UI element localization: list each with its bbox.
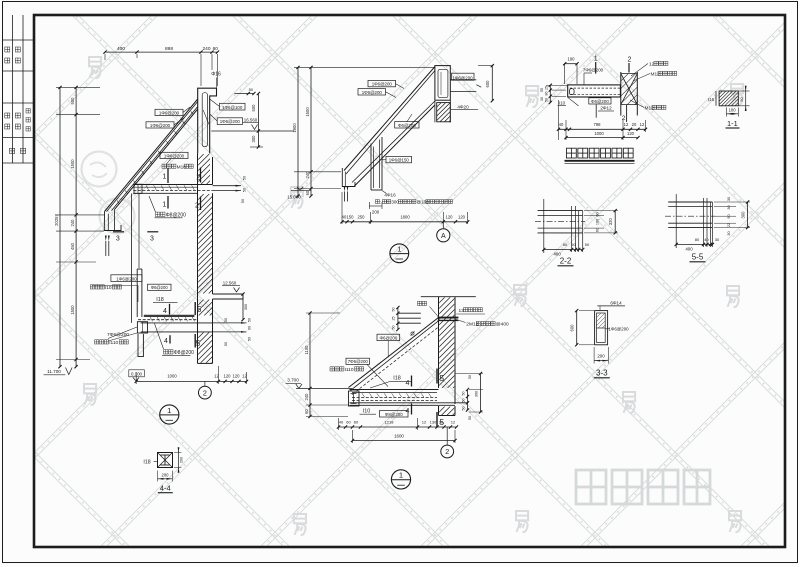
svg-text:30: 30 xyxy=(540,97,544,101)
svg-text:55: 55 xyxy=(540,88,544,92)
support label zhizuo phi8@200 xyxy=(149,196,156,212)
svg-text:300: 300 xyxy=(251,135,256,143)
svg-text:I10: I10 xyxy=(363,409,371,415)
section cut 2 upper xyxy=(200,168,202,183)
svg-text:2: 2 xyxy=(445,447,449,456)
svg-text:I18: I18 xyxy=(156,297,164,303)
label 1phi6@200 boxed xyxy=(217,118,242,125)
svg-text:50: 50 xyxy=(544,98,548,102)
detail B wall hatched xyxy=(421,296,476,298)
svg-text:1Φ6@200: 1Φ6@200 xyxy=(220,119,241,124)
svg-text:300: 300 xyxy=(244,304,248,310)
detail B right small dims xyxy=(467,390,469,411)
svg-text:I18: I18 xyxy=(143,460,150,466)
label tiejian xyxy=(418,301,427,305)
svg-text:0.100: 0.100 xyxy=(131,371,143,376)
svg-text:50: 50 xyxy=(468,416,472,420)
AC section cut 2 bottom xyxy=(626,105,628,122)
svg-text:50: 50 xyxy=(224,342,228,346)
svg-text:20: 20 xyxy=(632,122,637,127)
section 2-2 right dims xyxy=(614,211,616,233)
detail L parapet coping xyxy=(198,88,217,153)
section cut 5 lower xyxy=(194,334,196,348)
svg-text:1Φ6@100: 1Φ6@100 xyxy=(222,105,243,110)
svg-text:50: 50 xyxy=(740,97,744,101)
slab through-wall arrows xyxy=(213,185,242,187)
svg-text:1Φ6@200: 1Φ6@200 xyxy=(116,276,137,281)
svg-text:1000: 1000 xyxy=(594,131,604,136)
svg-text:4: 4 xyxy=(406,380,410,387)
section cut 1 lower xyxy=(167,196,169,209)
svg-text:Φ16: Φ16 xyxy=(211,72,221,78)
section 2-2 bottom dims xyxy=(544,249,583,251)
svg-text::: : xyxy=(380,200,381,205)
detail B weld labels xyxy=(346,358,370,364)
svg-text:60: 60 xyxy=(596,212,600,216)
4-4 right dim 200 xyxy=(178,451,180,469)
svg-text:1900: 1900 xyxy=(292,123,297,133)
svg-text:50: 50 xyxy=(462,392,466,396)
AC bottom dims xyxy=(559,128,646,130)
svg-text:M12: M12 xyxy=(651,72,661,78)
svg-text:25: 25 xyxy=(392,317,396,321)
svg-text:50: 50 xyxy=(243,176,247,180)
svg-text:120: 120 xyxy=(458,214,466,219)
3-3 left dim 600 xyxy=(576,311,578,345)
section 3-3 body xyxy=(595,311,608,345)
detail B left dims 1100/240/60 xyxy=(309,313,311,417)
title strip text xyxy=(5,47,10,52)
svg-text:240: 240 xyxy=(202,46,210,52)
hanger stub xyxy=(138,334,143,357)
title strip signature column xyxy=(12,15,14,163)
slope rebar labels boxed xyxy=(155,109,183,115)
svg-text:100: 100 xyxy=(729,108,737,113)
section cut 4 lower xyxy=(169,335,171,343)
detail L roof slope slab xyxy=(105,99,198,212)
callout bubble 1 detail L xyxy=(160,405,179,424)
svg-text:Φ8@200: Φ8@200 xyxy=(385,412,403,417)
svg-text:40: 40 xyxy=(339,420,344,425)
support label lower xyxy=(155,324,164,350)
svg-text:80: 80 xyxy=(563,242,568,247)
detail B bottom dims xyxy=(339,426,457,428)
svg-text:50: 50 xyxy=(248,337,252,341)
svg-text:1600: 1600 xyxy=(394,433,404,438)
roof level line xyxy=(211,130,294,132)
svg-text:5: 5 xyxy=(196,339,201,348)
svg-text:400: 400 xyxy=(685,247,693,252)
svg-text:160: 160 xyxy=(596,219,600,225)
svg-text:@100: @100 xyxy=(417,200,430,205)
detail L top dimension line 400/898/240/60 xyxy=(105,51,218,53)
eave gutter xyxy=(104,212,121,231)
parapet inner liner slot xyxy=(202,93,207,147)
svg-text:1: 1 xyxy=(594,56,598,63)
svg-text:200: 200 xyxy=(162,473,170,478)
svg-text:90: 90 xyxy=(727,214,731,218)
svg-text:2: 2 xyxy=(203,388,207,397)
svg-text:50: 50 xyxy=(462,399,466,403)
svg-text:12: 12 xyxy=(624,122,629,127)
detail M eave gutter xyxy=(342,168,355,187)
svg-text:1-1: 1-1 xyxy=(727,119,738,128)
svg-text:50: 50 xyxy=(585,242,590,247)
svg-text:390: 390 xyxy=(475,391,479,397)
section cut 1 upper xyxy=(167,169,169,184)
section cut 2 lower xyxy=(200,197,202,211)
svg-text:300: 300 xyxy=(391,200,399,205)
detail L total dimension xyxy=(59,87,61,366)
svg-text:12.560: 12.560 xyxy=(223,280,237,285)
svg-text:4Φ16: 4Φ16 xyxy=(384,193,396,198)
gutter arrows M xyxy=(344,192,346,202)
watermark big site name xyxy=(576,470,710,504)
beam end plate xyxy=(137,322,147,333)
svg-text:50: 50 xyxy=(249,87,254,92)
svg-text:25: 25 xyxy=(544,86,548,90)
svg-text:3.700: 3.700 xyxy=(287,378,299,383)
detail M roof slope xyxy=(344,67,435,171)
elevation 0.100 boxed xyxy=(129,370,145,377)
svg-text:1Φ6@200: 1Φ6@200 xyxy=(164,153,185,158)
section cut 4 marks B xyxy=(411,376,413,387)
svg-text:30: 30 xyxy=(727,231,731,235)
svg-text:1: 1 xyxy=(397,245,401,254)
gutter hanger arrows xyxy=(105,241,107,256)
rebar symbol on slope xyxy=(411,332,414,335)
svg-text:I18: I18 xyxy=(393,376,401,382)
detail M fascia member xyxy=(370,144,372,191)
section 4-4 body xyxy=(158,453,173,468)
svg-text:12: 12 xyxy=(451,420,456,425)
svg-text:I110: I110 xyxy=(109,340,118,346)
detail L lower beam slab xyxy=(144,315,195,317)
detail B label 1phi6@200 xyxy=(377,334,400,340)
svg-text:1800: 1800 xyxy=(400,214,410,219)
svg-text:50: 50 xyxy=(224,318,228,322)
svg-text:30: 30 xyxy=(439,420,444,425)
svg-text:30: 30 xyxy=(715,237,720,242)
detail L floor slab xyxy=(133,184,212,186)
svg-text:120: 120 xyxy=(627,131,635,136)
svg-text:1Φ6@200: 1Φ6@200 xyxy=(150,123,171,128)
svg-text:1Φ6@200: 1Φ6@200 xyxy=(608,327,629,332)
svg-text:60: 60 xyxy=(304,409,309,414)
section 5-5 right dims xyxy=(747,202,749,228)
svg-text:120: 120 xyxy=(233,374,241,379)
svg-text:798: 798 xyxy=(594,122,602,127)
wall ledge xyxy=(213,293,244,295)
svg-text:4: 4 xyxy=(406,408,410,415)
label 1phi6@100 boxed xyxy=(220,103,246,110)
svg-text:1500: 1500 xyxy=(70,159,75,169)
svg-text:190: 190 xyxy=(568,57,576,62)
svg-text:15.000: 15.000 xyxy=(287,195,301,200)
svg-text:20257: 20257 xyxy=(54,214,59,226)
svg-text:90: 90 xyxy=(248,326,252,330)
svg-text:50: 50 xyxy=(462,407,466,411)
svg-text:7Φ6@200: 7Φ6@200 xyxy=(348,359,369,364)
support label B xyxy=(380,411,409,418)
svg-text:1: 1 xyxy=(162,202,166,209)
detail L bottom dims xyxy=(136,380,246,382)
coping top 50 dim xyxy=(234,93,254,95)
svg-text:250: 250 xyxy=(358,214,366,219)
svg-text:M12: M12 xyxy=(645,106,655,112)
svg-text:2: 2 xyxy=(622,115,626,122)
detail B right leader labels xyxy=(456,313,485,315)
beam through-wall right side xyxy=(213,322,247,324)
svg-text:60: 60 xyxy=(346,420,351,425)
AC section cut 1 top xyxy=(595,62,597,74)
svg-text:1Φ6@200: 1Φ6@200 xyxy=(159,110,180,115)
fascia 200 dim xyxy=(368,202,370,209)
svg-text:60: 60 xyxy=(354,420,359,425)
svg-text:1500: 1500 xyxy=(305,107,310,117)
callout bubble 1 detail M xyxy=(390,244,409,263)
slab left end I-beam xyxy=(349,391,360,406)
AC wall hatched X xyxy=(620,72,622,116)
svg-text:12: 12 xyxy=(422,420,427,425)
detail M slope labels xyxy=(368,80,396,86)
svg-text:50: 50 xyxy=(571,242,576,247)
embed plate marks xyxy=(398,312,421,314)
svg-text:@400: @400 xyxy=(496,322,509,328)
AC right leader labels xyxy=(631,64,648,77)
svg-text:A: A xyxy=(441,233,446,240)
detail L lower level labels xyxy=(111,275,142,282)
svg-text:3: 3 xyxy=(150,236,154,243)
callout bubble 1 detail B xyxy=(391,470,410,489)
svg-text:1: 1 xyxy=(162,174,166,181)
svg-text:450: 450 xyxy=(70,242,75,250)
callout circle 2 detail L xyxy=(204,381,206,386)
svg-text:80: 80 xyxy=(544,92,548,96)
callout circle 2 detail B xyxy=(446,427,448,445)
svg-text:4Φ20: 4Φ20 xyxy=(457,104,469,109)
svg-text:2-2: 2-2 xyxy=(560,257,572,266)
svg-text:30: 30 xyxy=(727,197,731,201)
svg-text:Φ6@200: Φ6@200 xyxy=(398,123,416,128)
svg-text:898: 898 xyxy=(165,46,173,52)
section 5-5 body xyxy=(668,201,712,203)
label 1phi6@150 xyxy=(386,156,412,162)
svg-text:200: 200 xyxy=(180,457,184,463)
svg-text:5: 5 xyxy=(440,374,445,383)
svg-text:5: 5 xyxy=(197,305,202,314)
svg-text:1Φ6@200: 1Φ6@200 xyxy=(362,90,383,95)
ridge right lines + 600 dim xyxy=(450,79,476,81)
detail M left dims 1900/1500/240 xyxy=(297,67,299,196)
AC left small dims xyxy=(549,85,551,102)
detail B slab xyxy=(350,389,439,391)
svg-text:I10: I10 xyxy=(105,285,112,291)
svg-text:12: 12 xyxy=(640,122,645,127)
svg-text:50: 50 xyxy=(392,326,396,330)
svg-text:1218: 1218 xyxy=(385,420,395,425)
svg-text:60: 60 xyxy=(305,190,310,195)
svg-text:60: 60 xyxy=(596,228,600,232)
label 4phi16 xyxy=(382,191,387,194)
svg-text:600: 600 xyxy=(485,80,490,88)
svg-text:500: 500 xyxy=(251,104,256,112)
svg-text:50: 50 xyxy=(468,375,472,379)
AC top 190 dim xyxy=(565,63,577,65)
detail L masonry wall hatched xyxy=(197,153,199,363)
svg-text:600: 600 xyxy=(570,324,575,332)
svg-text:200: 200 xyxy=(597,354,605,359)
svg-text:50: 50 xyxy=(248,318,252,322)
svg-text:300: 300 xyxy=(740,211,745,219)
svg-text:60: 60 xyxy=(213,46,219,52)
svg-text:150: 150 xyxy=(347,214,355,219)
svg-text:320: 320 xyxy=(608,218,613,226)
label weld to steel xyxy=(162,164,176,168)
svg-text:2M12: 2M12 xyxy=(466,322,478,328)
svg-text:Φ6@200: Φ6@200 xyxy=(591,99,609,104)
svg-text:2Φ12: 2Φ12 xyxy=(600,106,612,111)
section 2-2 body xyxy=(538,210,583,212)
section cut 5 marks B xyxy=(436,369,438,384)
detail B slope xyxy=(349,318,439,388)
section 5-5 bottom dims xyxy=(676,243,712,245)
svg-text:400: 400 xyxy=(117,46,125,52)
section cut 5 upper xyxy=(194,302,196,315)
svg-text:M16: M16 xyxy=(177,164,187,170)
svg-text:3-3: 3-3 xyxy=(596,369,608,378)
watermark yi glyphs xyxy=(89,57,101,78)
svg-text:130: 130 xyxy=(430,420,437,425)
svg-text:120: 120 xyxy=(446,214,454,219)
svg-text:16.560: 16.560 xyxy=(244,117,258,122)
svg-text:1500: 1500 xyxy=(70,305,75,315)
svg-text:1000: 1000 xyxy=(167,374,177,379)
svg-text:2: 2 xyxy=(628,57,632,64)
svg-text:1: 1 xyxy=(399,471,403,480)
AC section cut 2 top xyxy=(628,63,630,73)
svg-text:30: 30 xyxy=(727,205,731,209)
svg-text:50: 50 xyxy=(243,188,247,192)
svg-text:50: 50 xyxy=(241,199,245,203)
section cut 3 marks xyxy=(113,231,124,233)
section cut 4 upper xyxy=(169,304,171,315)
svg-text:I10: I10 xyxy=(559,101,566,106)
svg-text:22: 22 xyxy=(727,223,731,227)
AC title kongtiao shiwaijiji xyxy=(567,148,634,158)
svg-text:6Φ14: 6Φ14 xyxy=(610,301,622,306)
detail M ridge box xyxy=(435,66,450,101)
svg-text:1100: 1100 xyxy=(304,345,309,355)
svg-text:1: 1 xyxy=(167,406,171,415)
svg-text:Φ6@200: Φ6@200 xyxy=(380,335,398,340)
svg-text:5-5: 5-5 xyxy=(692,253,704,262)
embed plate bars at wall xyxy=(438,317,459,319)
svg-text:I110: I110 xyxy=(345,367,354,373)
svg-text:4-4: 4-4 xyxy=(160,484,171,493)
svg-text:120: 120 xyxy=(224,374,232,379)
lower wall lines xyxy=(131,194,133,323)
svg-text:7Φ6@200: 7Φ6@200 xyxy=(583,68,604,73)
svg-text:240: 240 xyxy=(70,219,75,227)
section 1-1 xyxy=(719,91,738,106)
svg-text:40: 40 xyxy=(559,122,564,127)
note text line xyxy=(376,200,380,204)
svg-text:500: 500 xyxy=(70,97,75,105)
AC channel leader I10 xyxy=(568,98,578,106)
steel column channel xyxy=(136,269,138,317)
elevation 15.000 xyxy=(291,189,311,191)
svg-text:3: 3 xyxy=(116,236,120,243)
svg-text:1Φ6@150: 1Φ6@150 xyxy=(389,158,410,163)
detail L right vertical dim 500/300 xyxy=(257,94,259,148)
svg-text:1Φ6@200: 1Φ6@200 xyxy=(372,82,393,87)
svg-text:11.700: 11.700 xyxy=(47,369,61,374)
detail L left dimension column xyxy=(75,87,77,366)
AC label phi6@200 boxed xyxy=(589,98,611,104)
AC bracket body xyxy=(568,85,621,97)
detail M bottom dims xyxy=(342,221,468,223)
svg-text:50: 50 xyxy=(392,308,396,312)
svg-text:I16: I16 xyxy=(708,97,715,102)
watermark logo circles xyxy=(82,152,117,187)
detail M hatched wall block xyxy=(437,103,451,122)
callout circle A xyxy=(442,222,444,229)
svg-text:240: 240 xyxy=(304,393,309,401)
svg-text:4: 4 xyxy=(164,338,168,345)
svg-text:80: 80 xyxy=(695,237,700,242)
svg-text:40: 40 xyxy=(704,237,709,242)
svg-text:4: 4 xyxy=(163,308,167,315)
svg-text:200: 200 xyxy=(372,210,380,215)
svg-text:Φ6@200: Φ6@200 xyxy=(151,285,169,290)
